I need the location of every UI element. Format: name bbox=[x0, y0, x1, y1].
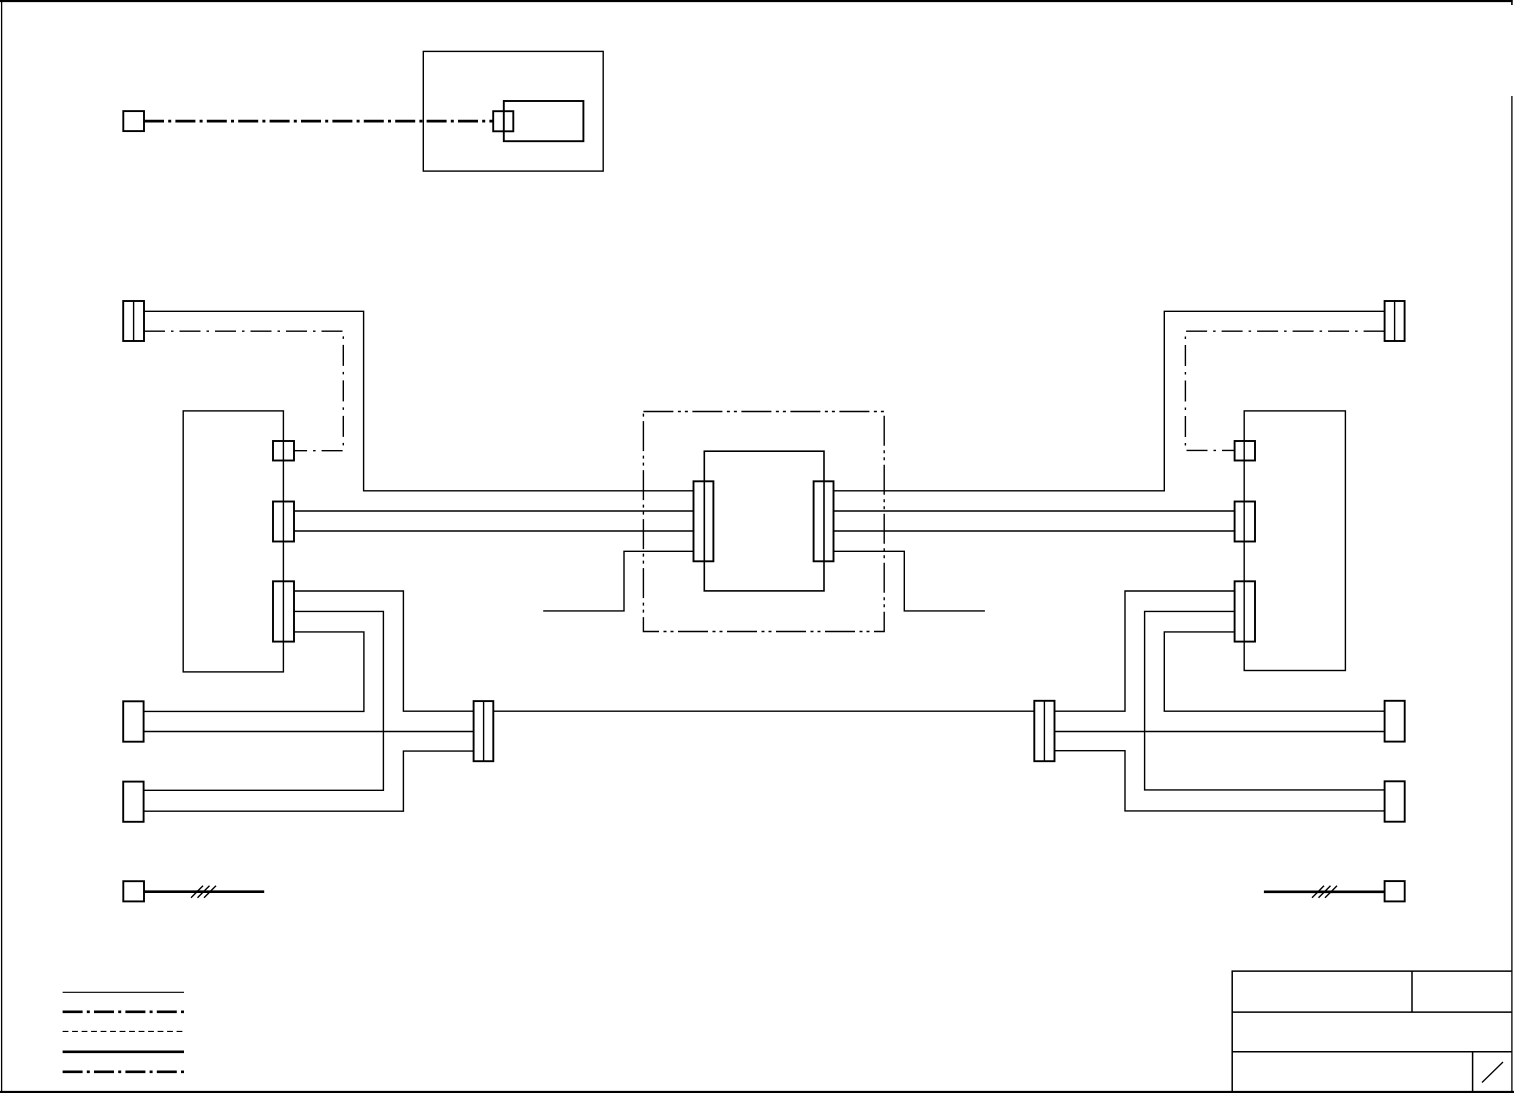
ECU enclosure box bbox=[423, 51, 603, 171]
legend line thin solid bbox=[63, 991, 184, 993]
wire X1 pin1 solid bbox=[144, 311, 694, 491]
inline connector J1 (left, double-bar) bbox=[474, 701, 494, 761]
border left bbox=[1, 0, 3, 1093]
legend line thick solid bbox=[63, 1050, 184, 1053]
border top-right tick bbox=[1511, 0, 1513, 5]
ground lead right (thick) bbox=[1264, 890, 1385, 893]
wire M1C3 pin2 to conn B bbox=[144, 611, 384, 790]
inline connector J2 (right, double-bar) bbox=[1034, 701, 1054, 761]
connector M2-C3 bbox=[1235, 581, 1255, 641]
wire U1L pin4 stub (left) bbox=[543, 551, 693, 611]
wire mid-conn R pin3 to conn D pin2 bbox=[1055, 751, 1385, 811]
legend line thick dash-dot bbox=[63, 1010, 184, 1013]
title block divider bottom bbox=[1472, 1052, 1474, 1092]
wire U1R pin1 to X2 bbox=[834, 311, 1385, 491]
wire mid-conn R pin2 to conn C pin2 bbox=[1055, 731, 1385, 733]
ECU inner module bbox=[504, 101, 584, 141]
connector B (bottom-left lower) bbox=[123, 782, 143, 822]
title block diagonal slash bbox=[1482, 1062, 1503, 1083]
connector U1 left bbox=[694, 481, 714, 561]
wire U1R pin3 bbox=[834, 530, 1235, 532]
connector M1-C3 bbox=[273, 581, 294, 641]
connector M1-C2 bbox=[273, 502, 294, 542]
connector M2-C2 bbox=[1235, 502, 1255, 542]
border bottom bbox=[0, 1091, 1514, 1093]
ground lead left (thick) bbox=[144, 890, 264, 893]
legend line thick dash-dot 2 bbox=[63, 1070, 184, 1073]
connector M2-C1 bbox=[1235, 441, 1255, 461]
module U1 center box bbox=[704, 451, 824, 591]
connector on ECU module bbox=[493, 111, 513, 131]
title block row line 2 bbox=[1232, 1051, 1512, 1053]
connector D (bottom-right lower) bbox=[1385, 781, 1405, 821]
connector C (bottom-right upper) bbox=[1385, 701, 1405, 742]
wire harness trunk (thick dash-dot) bbox=[144, 120, 493, 123]
wire M2C3 pin1 to mid-conn R bbox=[1055, 591, 1235, 711]
wire M1C2 pin1 bbox=[294, 510, 694, 512]
connector M1-C1 bbox=[273, 441, 294, 461]
wire X2 pin2 dash-dot bbox=[1185, 331, 1384, 450]
bus wire between inline connectors bbox=[493, 710, 1034, 712]
wire conn A pin2 to mid-conn bbox=[144, 731, 474, 733]
ground hash marks right bbox=[1312, 886, 1324, 898]
border right bbox=[1511, 96, 1513, 1093]
node T1 terminal square bbox=[123, 111, 144, 131]
connector X2 top-right (double-bar) bbox=[1385, 301, 1405, 341]
wire M2C3 pin3 to conn C bbox=[1164, 632, 1384, 711]
component M2 box (right) bbox=[1244, 411, 1345, 671]
ground terminal left square bbox=[123, 881, 144, 901]
title block divider top bbox=[1411, 971, 1413, 1012]
legend line thin dashed bbox=[63, 1030, 184, 1032]
connector U1 right bbox=[814, 481, 834, 561]
wire M1C3 pin3 to conn A bbox=[144, 632, 364, 712]
shield boundary (phantom dash-dot-dot box) bbox=[643, 412, 884, 632]
title block outline bbox=[1232, 971, 1512, 1092]
connector A (bottom-left upper) bbox=[123, 701, 143, 741]
connector X1 top-left (double-bar) bbox=[123, 301, 144, 341]
wire X1 pin2 dash-dot bbox=[144, 331, 343, 451]
wire M2C3 pin2 to conn D bbox=[1145, 611, 1385, 790]
wire U1R pin4 stub (right) bbox=[834, 551, 985, 611]
wire M1C3 pin1 to mid-conn bbox=[294, 591, 474, 711]
title block row line 1 bbox=[1232, 1011, 1512, 1013]
ground hash marks left bbox=[191, 886, 203, 898]
ground terminal right square bbox=[1385, 881, 1405, 901]
component M1 box (left) bbox=[183, 411, 283, 672]
border top bbox=[0, 0, 1513, 2]
wire U1R pin2 bbox=[834, 510, 1235, 512]
wire mid-conn pin3 to conn B pin2 bbox=[144, 751, 474, 811]
wire M1C2 pin2 bbox=[294, 530, 694, 532]
